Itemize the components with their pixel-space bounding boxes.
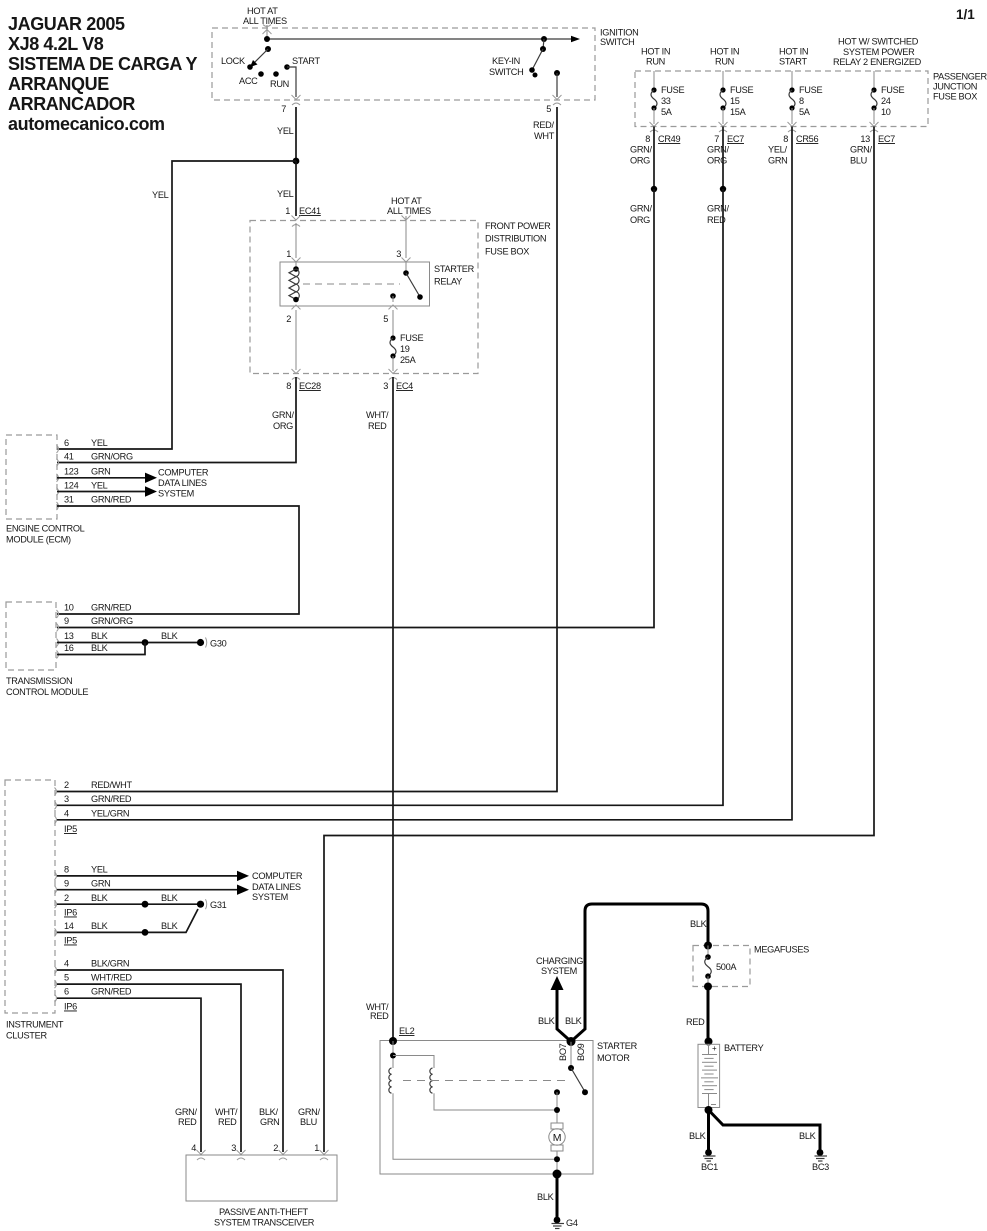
- key-in switch arm: [489, 49, 543, 78]
- svg-text:GRN/RED: GRN/RED: [91, 987, 132, 997]
- op instrument cluster box: [5, 780, 64, 1041]
- ignition switch box: [212, 28, 638, 101]
- svg-text:25A: 25A: [400, 355, 417, 365]
- svg-text:RUN: RUN: [715, 57, 734, 67]
- node megafuse bottom junction: [704, 983, 712, 991]
- svg-text:GRN: GRN: [91, 467, 111, 477]
- connector pin 8 EC28: [292, 369, 301, 380]
- svg-text:GRN: GRN: [91, 879, 111, 889]
- svg-text:RED: RED: [370, 1011, 389, 1021]
- svg-text:BLK: BLK: [161, 631, 179, 641]
- svg-text:WHT/RED: WHT/RED: [91, 973, 132, 983]
- fuse 500A megafuse: [705, 946, 738, 987]
- svg-text:HOT IN: HOT IN: [641, 47, 670, 57]
- svg-text:FUSE: FUSE: [730, 85, 753, 95]
- svg-text:1: 1: [314, 1143, 319, 1153]
- node COMPUTER DATA LINES SYSTEM (ECM): [158, 468, 209, 499]
- solenoid hold-in winding L1: [389, 1068, 392, 1093]
- node splice BLK (pin14): [142, 929, 149, 936]
- connector bracket ECM pin 124: [57, 488, 59, 496]
- node starter ground exit: [553, 1170, 562, 1179]
- wire GRN/ORG label below splice: [630, 204, 653, 226]
- svg-text:BLK: BLK: [91, 631, 109, 641]
- connector bracket ECM pin 6: [57, 445, 59, 453]
- wire BLK/GRN IC pin 4 to transceiver pin 2: [57, 970, 283, 1152]
- svg-text:G31: G31: [210, 900, 227, 910]
- svg-text:SYSTEM: SYSTEM: [541, 966, 577, 976]
- fuse F33 5A: [651, 85, 684, 124]
- svg-text:3: 3: [396, 249, 401, 259]
- svg-text:BO9: BO9: [576, 1043, 586, 1061]
- connector pin 8 CR56: [788, 122, 797, 132]
- svg-text:6: 6: [64, 438, 69, 448]
- svg-text:1: 1: [286, 249, 291, 259]
- connector transceiver pin 4: [197, 1150, 206, 1160]
- node battery positive junction: [705, 1038, 713, 1046]
- svg-text:GRN/RED: GRN/RED: [91, 495, 132, 505]
- svg-text:HOT IN: HOT IN: [779, 47, 808, 57]
- wire EC41 into box to relay pin 1: [295, 223, 297, 258]
- fuse F8 5A: [789, 71, 822, 124]
- key-in switch tap node: [540, 36, 547, 52]
- wire fuse33 to junction: [653, 127, 655, 190]
- svg-text:CR49: CR49: [658, 134, 680, 144]
- pin 124 YEL label: [64, 480, 108, 490]
- connector at ignition box top: [263, 25, 272, 35]
- fuse F19 25A: [390, 333, 423, 365]
- svg-text:EL2: EL2: [399, 1026, 415, 1036]
- svg-text:ORG: ORG: [630, 156, 650, 166]
- svg-text:5: 5: [546, 104, 551, 114]
- pin 3 EC4 label: [383, 381, 413, 391]
- op ECM box (engine control module): [6, 435, 85, 545]
- svg-text:4: 4: [191, 1143, 196, 1153]
- connector bracket TCM pin 9: [57, 624, 59, 632]
- wire BLK/GRN label (transceiver pin 2): [259, 1107, 280, 1127]
- svg-text:HOT AT: HOT AT: [247, 6, 278, 16]
- svg-text:BLK: BLK: [689, 1131, 707, 1141]
- wire GRN/RED ECM pin31 to TCM pin10: [57, 506, 299, 614]
- svg-text:RUN: RUN: [270, 79, 289, 89]
- wire BLK IC pin 2 to G31: [57, 903, 197, 905]
- svg-text:COMPUTER: COMPUTER: [252, 871, 303, 881]
- svg-text:7: 7: [281, 104, 286, 114]
- svg-text:GRN/: GRN/: [850, 145, 873, 155]
- node HOT IN START: [779, 47, 808, 67]
- svg-text:ORG: ORG: [630, 215, 650, 225]
- svg-text:RUN: RUN: [646, 57, 665, 67]
- svg-text:BLK: BLK: [690, 919, 708, 929]
- relay actuation dashed link: [303, 283, 400, 285]
- svg-text:M: M: [553, 1132, 561, 1144]
- relay output contact: [390, 293, 396, 302]
- svg-text:10: 10: [881, 107, 891, 117]
- svg-text:16: 16: [64, 643, 74, 653]
- node motor feed junction: [554, 1107, 560, 1113]
- svg-text:YEL: YEL: [91, 438, 108, 448]
- pin 2 RED/WHT label: [64, 780, 132, 790]
- starter relay K1 box: [280, 262, 475, 306]
- svg-text:RELAY 2 ENERGIZED: RELAY 2 ENERGIZED: [833, 57, 922, 67]
- svg-text:DATA LINES: DATA LINES: [252, 882, 301, 892]
- wire GRN/BLU EC7-13 to transceiver pin 1: [324, 127, 874, 1153]
- connector pin 7 EC7: [719, 122, 728, 132]
- connector bracket TCM pin 13: [57, 639, 59, 647]
- passenger junction fuse box: [635, 71, 987, 127]
- wire GRN/RED IC pin 6 to transceiver pin 4: [57, 998, 201, 1152]
- connector bracket IC pin 8: [55, 872, 57, 880]
- ground BC1: [701, 1149, 718, 1172]
- relay coil: [289, 262, 299, 302]
- solenoid switch output contact: [554, 1089, 560, 1095]
- wire RED/WHT label: [533, 120, 555, 141]
- wire BLK IC pin 14 to G31: [57, 909, 198, 932]
- svg-text:SWITCH: SWITCH: [489, 67, 523, 77]
- svg-text:RELAY: RELAY: [434, 277, 462, 287]
- pin 13 BLK label: [64, 631, 109, 641]
- svg-text:3: 3: [383, 381, 388, 391]
- svg-text:RED/WHT: RED/WHT: [91, 780, 132, 790]
- node motor return junction: [554, 1156, 560, 1162]
- wire splice to TCM pin 9 run: [57, 189, 654, 628]
- svg-text:GRN/: GRN/: [272, 410, 295, 420]
- svg-text:SYSTEM TRANSCEIVER: SYSTEM TRANSCEIVER: [214, 1218, 315, 1228]
- svg-text:7: 7: [714, 134, 719, 144]
- wire WHT/RED label (transceiver pin 3): [215, 1107, 238, 1127]
- connector bracket IC pin 3: [55, 801, 57, 809]
- wire GRN/ORG label (fuse 15 out): [707, 145, 730, 166]
- motor M1 (starter): [549, 1123, 565, 1151]
- wire START to pin 7: [287, 67, 296, 97]
- svg-text:CR56: CR56: [796, 134, 818, 144]
- pin 10 GRN/RED label: [64, 603, 132, 613]
- wire GRN/ORG label (fuse 33 out): [630, 145, 653, 166]
- node megafuse top junction: [704, 942, 712, 950]
- connector relay pin 5: [389, 305, 398, 310]
- node EL2 junction at box edge: [389, 1037, 397, 1045]
- wire YEL data line with arrow (IC): [57, 871, 249, 881]
- connector bracket ECM pin 41: [57, 459, 59, 467]
- node HOT IN RUN (fuse 33): [641, 47, 670, 67]
- svg-text:ALL TIMES: ALL TIMES: [243, 16, 287, 26]
- ignition rotary switch arm: [250, 46, 271, 67]
- wire YEL data line with arrow: [57, 486, 157, 496]
- svg-text:GRN/: GRN/: [707, 145, 730, 155]
- svg-text:ORG: ORG: [273, 421, 293, 431]
- svg-text:15: 15: [730, 96, 740, 106]
- svg-text:JUNCTION: JUNCTION: [933, 82, 977, 92]
- pin 123 GRN label: [64, 467, 111, 477]
- wire BLK starter BO9 to megafuse: [571, 904, 708, 1042]
- wire relay pin 5 to fuse 19: [392, 310, 394, 336]
- contact START: [284, 56, 320, 70]
- wire GRN data line with arrow (IC): [57, 885, 249, 895]
- svg-text:STARTER: STARTER: [434, 264, 475, 274]
- wire branch to pull-in winding: [393, 1056, 434, 1069]
- wire YEL/GRN label: [768, 145, 788, 166]
- contact LOCK: [221, 56, 253, 70]
- svg-text:IP6: IP6: [64, 1002, 77, 1012]
- front power distribution fuse box: [250, 221, 551, 374]
- svg-text:YEL: YEL: [277, 126, 294, 136]
- svg-text:FUSE: FUSE: [400, 333, 423, 343]
- svg-text:CLUSTER: CLUSTER: [6, 1031, 47, 1041]
- op TCM box (transmission control module): [6, 602, 88, 697]
- svg-text:SYSTEM POWER: SYSTEM POWER: [843, 47, 915, 57]
- pin 16 BLK label: [64, 643, 109, 653]
- connector bracket IC pin 2: [55, 788, 57, 796]
- svg-text:IP5: IP5: [64, 824, 77, 834]
- wire splice to instrument cluster pin 3 run: [57, 189, 723, 805]
- pin 4 YEL/GRN label: [64, 809, 129, 819]
- svg-text:XJ8 4.2L V8: XJ8 4.2L V8: [8, 34, 104, 54]
- svg-text:MEGAFUSES: MEGAFUSES: [754, 945, 809, 955]
- svg-text:BLU: BLU: [850, 156, 867, 166]
- svg-text:1: 1: [285, 206, 290, 216]
- wire RED megafuse to battery: [707, 987, 710, 1041]
- wire fuse15 to junction: [722, 127, 724, 190]
- svg-text:BLK/GRN: BLK/GRN: [91, 959, 129, 969]
- wire WHT/RED label (EC4 out): [366, 410, 389, 431]
- connector relay pin 3: [402, 258, 411, 263]
- pin 4 BLK/GRN label: [64, 959, 129, 969]
- svg-text:GRN/: GRN/: [175, 1107, 198, 1117]
- svg-text:RED: RED: [368, 421, 387, 431]
- svg-text:RED: RED: [686, 1017, 705, 1027]
- svg-text:BLK: BLK: [799, 1131, 817, 1141]
- wire solenoid contact feed: [570, 1042, 572, 1069]
- svg-text:123: 123: [64, 467, 79, 477]
- pin 1 EC41 label: [285, 206, 321, 216]
- svg-text:BO7: BO7: [558, 1043, 568, 1061]
- svg-text:24: 24: [881, 96, 891, 106]
- fuse F15 15A: [720, 71, 753, 124]
- op passive anti-theft system transceiver box: [186, 1155, 337, 1228]
- svg-text:EC7: EC7: [878, 134, 895, 144]
- svg-text:GRN: GRN: [768, 156, 788, 166]
- svg-text:BLU: BLU: [300, 1117, 317, 1127]
- connector bracket IC pin 9: [55, 886, 57, 894]
- svg-text:EC41: EC41: [299, 206, 321, 216]
- node HOT AT ALL TIMES (relay feed): [387, 196, 431, 216]
- svg-text:SYSTEM: SYSTEM: [158, 489, 194, 499]
- solenoid pull-in winding L2: [430, 1068, 433, 1093]
- svg-text:14: 14: [64, 921, 74, 931]
- svg-text:PASSIVE ANTI-THEFT: PASSIVE ANTI-THEFT: [219, 1207, 309, 1217]
- svg-text:YEL/: YEL/: [768, 145, 787, 155]
- wire WHT/RED EC4 to starter motor EL2: [392, 377, 394, 1041]
- wire fuse 19 to EC4: [392, 356, 394, 371]
- svg-text:YEL: YEL: [91, 480, 108, 490]
- svg-text:FRONT POWER: FRONT POWER: [485, 221, 551, 231]
- svg-text:BLK: BLK: [91, 643, 109, 653]
- svg-text:IGNITION: IGNITION: [600, 28, 638, 38]
- svg-text:ACC: ACC: [239, 76, 258, 86]
- wire BLK TCM pin 13 to G30: [57, 642, 197, 644]
- node ignition feed junction: [264, 36, 270, 42]
- svg-text:DISTRIBUTION: DISTRIBUTION: [485, 234, 546, 244]
- svg-text:IP5: IP5: [64, 936, 77, 946]
- svg-text:GRN/: GRN/: [630, 145, 653, 155]
- wire BLK to charging system with arrow: [551, 976, 572, 1042]
- svg-text:RED/: RED/: [533, 120, 554, 130]
- pin 6 YEL label: [64, 438, 108, 448]
- connector relay pin 2: [292, 305, 301, 310]
- svg-text:TRANSMISSION: TRANSMISSION: [6, 676, 72, 686]
- svg-text:FUSE BOX: FUSE BOX: [933, 92, 977, 102]
- svg-text:YEL: YEL: [152, 190, 169, 200]
- node YEL splice: [293, 158, 300, 165]
- wire BLK starter to G4: [556, 1174, 559, 1218]
- pin 8 CR49 label: [645, 134, 680, 144]
- svg-text:START: START: [292, 56, 320, 66]
- node splice BLK (pin2): [142, 901, 149, 908]
- connector EC41 at fuse box top: [292, 216, 301, 227]
- svg-text:automecanico.com: automecanico.com: [8, 114, 165, 134]
- svg-text:500A: 500A: [716, 962, 737, 972]
- pin 2 BLK label: [64, 893, 109, 903]
- svg-text:IP6: IP6: [64, 908, 77, 918]
- solenoid actuation dashed link: [403, 1080, 568, 1082]
- svg-text:YEL: YEL: [277, 189, 294, 199]
- pin 6 GRN/RED label: [64, 987, 132, 997]
- svg-text:RED: RED: [218, 1117, 237, 1127]
- node HOT IN RUN (fuse 15): [710, 47, 739, 67]
- wire BLK battery to BC3: [709, 1110, 821, 1150]
- svg-text:FUSE: FUSE: [799, 85, 822, 95]
- svg-text:BLK: BLK: [91, 921, 109, 931]
- pin 9 GRN/ORG label: [64, 616, 133, 626]
- svg-text:8: 8: [645, 134, 650, 144]
- wire contact to motor: [556, 1092, 558, 1123]
- svg-text:10: 10: [64, 603, 74, 613]
- ground G31: [197, 899, 227, 910]
- node splice GRN/ORG: [651, 186, 657, 192]
- svg-text:FUSE: FUSE: [661, 85, 684, 95]
- svg-text:ORG: ORG: [707, 156, 727, 166]
- connector bracket IC pin 5: [55, 980, 57, 988]
- pin 5 WHT/RED label: [64, 973, 132, 983]
- svg-text:GRN/: GRN/: [707, 204, 730, 214]
- svg-text:5A: 5A: [799, 107, 811, 117]
- svg-text:LOCK: LOCK: [221, 56, 246, 66]
- connector pin 3 EC4: [389, 369, 398, 380]
- svg-text:ARRANCADOR: ARRANCADOR: [8, 94, 135, 114]
- pin 13 EC7 label: [860, 134, 895, 144]
- connector ignition pin 5: [553, 95, 562, 105]
- node CHARGING SYSTEM: [536, 956, 583, 976]
- connector transceiver pin 1: [320, 1150, 329, 1160]
- svg-text:2: 2: [286, 314, 291, 324]
- svg-text:PASSENGER: PASSENGER: [933, 72, 987, 82]
- svg-text:KEY-IN: KEY-IN: [492, 56, 520, 66]
- svg-text:EC4: EC4: [396, 381, 413, 391]
- svg-text:9: 9: [64, 616, 69, 626]
- svg-text:SWITCH: SWITCH: [600, 37, 634, 47]
- wire BLK TCM pin 16 to splice: [57, 643, 145, 655]
- svg-text:ALL TIMES: ALL TIMES: [387, 206, 431, 216]
- wire GRN data line with arrow: [57, 473, 157, 483]
- svg-text:CONTROL MODULE: CONTROL MODULE: [6, 687, 88, 697]
- svg-text:6: 6: [64, 987, 69, 997]
- ignition bus wire: [267, 36, 580, 42]
- fuse 33 feed stub: [653, 71, 655, 88]
- wire pull-in winding to motor feed: [434, 1093, 557, 1110]
- svg-text:GRN: GRN: [260, 1117, 280, 1127]
- svg-text:INSTRUMENT: INSTRUMENT: [6, 1020, 64, 1030]
- wire RED/WHT key-in pin5 to instrument cluster pin 2: [57, 107, 557, 792]
- svg-text:START: START: [779, 57, 807, 67]
- connector transceiver pin 3: [237, 1150, 246, 1160]
- svg-text:BLK/: BLK/: [259, 1107, 278, 1117]
- wire GRN/BLU label (transceiver pin 1): [298, 1107, 321, 1127]
- node HOT W/ SWITCHED SYSTEM POWER RELAY 2 ENERGIZED: [833, 37, 922, 68]
- svg-text:8: 8: [799, 96, 804, 106]
- connector pin 13 EC7: [870, 122, 879, 132]
- node COMPUTER DATA LINES SYSTEM (IC): [252, 871, 303, 902]
- svg-text:STARTER: STARTER: [597, 1041, 638, 1051]
- svg-text:13: 13: [64, 631, 74, 641]
- svg-text:BC3: BC3: [812, 1162, 829, 1172]
- contact RUN: [270, 71, 289, 89]
- solenoid switch input contact: [568, 1065, 574, 1071]
- wire GRN/ORG label (EC28 out): [272, 410, 295, 431]
- wire GRN/RED label (transceiver pin 4): [175, 1107, 198, 1127]
- svg-text:5: 5: [383, 314, 388, 324]
- svg-text:33: 33: [661, 96, 671, 106]
- svg-text:FUSE: FUSE: [881, 85, 904, 95]
- ground G30: [197, 638, 227, 649]
- pin 31 GRN/RED label: [64, 495, 132, 505]
- node solenoid branch junction: [390, 1053, 396, 1059]
- pin 3 GRN/RED label: [64, 794, 132, 804]
- svg-text:GRN/: GRN/: [298, 1107, 321, 1117]
- svg-text:BATTERY: BATTERY: [724, 1043, 764, 1053]
- wire feed stub into ignition box: [266, 25, 268, 36]
- svg-text:5A: 5A: [661, 107, 673, 117]
- svg-text:1/1: 1/1: [956, 7, 975, 22]
- svg-text:HOT AT: HOT AT: [391, 196, 422, 206]
- svg-text:YEL/GRN: YEL/GRN: [91, 809, 129, 819]
- battery B1: [698, 1043, 764, 1108]
- svg-text:YEL: YEL: [91, 865, 108, 875]
- svg-text:WHT/: WHT/: [366, 410, 389, 420]
- pin 8 EC28 label: [286, 381, 321, 391]
- node BO7/BO9 entry dot: [567, 1037, 576, 1046]
- pin 9 GRN label: [64, 879, 111, 889]
- pin 8 CR56 label: [783, 134, 818, 144]
- wire motor to ground exit: [556, 1151, 558, 1174]
- connector HOT stub at box edge: [402, 216, 411, 221]
- svg-text:MOTOR: MOTOR: [597, 1053, 630, 1063]
- svg-text:15A: 15A: [730, 107, 747, 117]
- connector bracket ECM pin 31: [57, 502, 59, 510]
- svg-text:DATA LINES: DATA LINES: [158, 478, 207, 488]
- megafuses box: [693, 945, 809, 987]
- svg-text:2: 2: [64, 780, 69, 790]
- svg-text:19: 19: [400, 344, 410, 354]
- connector bracket TCM pin 10: [57, 610, 59, 618]
- relay switch arm: [406, 273, 423, 300]
- svg-text:SYSTEM: SYSTEM: [252, 892, 288, 902]
- svg-text:8: 8: [783, 134, 788, 144]
- pin 7 EC7 label: [714, 134, 744, 144]
- pin 41 GRN/ORG label: [64, 452, 133, 462]
- title text block: [8, 14, 198, 134]
- svg-text:SISTEMA DE CARGA Y: SISTEMA DE CARGA Y: [8, 54, 198, 74]
- svg-text:BLK: BLK: [161, 921, 179, 931]
- node HOT AT ALL TIMES (ignition feed): [243, 6, 287, 26]
